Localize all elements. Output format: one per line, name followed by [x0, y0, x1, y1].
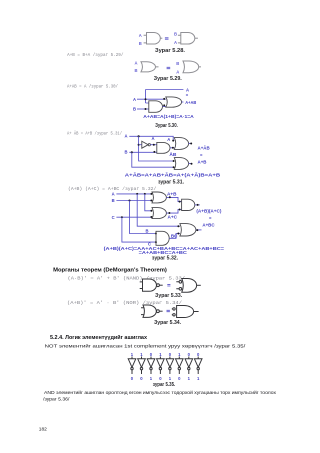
inverter U7 [176, 357, 184, 375]
svg-text:B: B [133, 107, 136, 112]
node A branch 2 [144, 193, 146, 195]
identity text line A+AB [67, 85, 118, 90]
wire input A to OR [137, 98, 166, 100]
output bits row [131, 376, 200, 381]
body text AND line 1 [44, 389, 277, 396]
AND gate G5 [149, 101, 163, 113]
identity text line A+B [67, 53, 124, 58]
AND gate G11 [156, 231, 169, 245]
wire AND-B output [169, 234, 180, 239]
caption figure 5.28 [155, 48, 186, 54]
label A+B [167, 191, 177, 196]
svg-text:Зураг 5.30.: Зураг 5.30. [155, 123, 178, 129]
node AND-R output [197, 204, 199, 206]
caption figure 5.34 [154, 320, 182, 326]
svg-text:(A+B)' = A' · B' (NOR) /зур: (A+B)' = A' · B' (NOR) /зураг 5.34/ [67, 301, 183, 306]
input label A (gate G3) [135, 60, 138, 65]
wire AND output [163, 106, 167, 108]
svg-text:A: A [139, 33, 142, 38]
figure 5.35 : ones complement inverters [128, 352, 202, 388]
equals sign fig 5.29 [167, 67, 171, 68]
identity text line (A+B)(A+C) [68, 187, 157, 192]
caption figure 5.35 [153, 382, 176, 388]
bubble OR input 2 [179, 288, 182, 291]
inverter U3 [138, 357, 146, 375]
wire A long rail to OR3 [137, 194, 180, 226]
input label B (gate G4) [176, 61, 179, 66]
bubble AND input 1 [173, 308, 175, 310]
input label B (gate G1) [139, 41, 142, 46]
svg-text:1: 1 [188, 376, 191, 381]
wire A top rail [129, 136, 174, 140]
label A at OR-T input [167, 137, 170, 142]
label Abar [152, 136, 155, 141]
node AND-R lower input [179, 209, 181, 211]
node AND-R upper input [179, 201, 181, 203]
figure 5.30 : absorption A+AB=A [133, 88, 196, 130]
heading DeMorgan [53, 267, 167, 273]
output label A+B [198, 159, 207, 164]
svg-text:A: A [174, 40, 177, 45]
svg-text:Зураг 5.29.: Зураг 5.29. [154, 76, 183, 82]
svg-text:зураг 5.31.: зураг 5.31. [158, 180, 185, 186]
figure 5.31 : A+notA B = A+B [125, 134, 221, 186]
identity text line NAND [68, 277, 186, 282]
svg-text:0: 0 [140, 376, 143, 381]
svg-text:зураг 5.32.: зураг 5.32. [152, 255, 179, 261]
OR gate G4 [183, 61, 199, 73]
svg-text:C: C [112, 215, 115, 220]
svg-text:1: 1 [140, 352, 143, 357]
wire to inverter [139, 144, 142, 146]
node OR1 upper input [150, 193, 152, 195]
wire OR1 output [166, 197, 181, 201]
svg-text:A+AB = A /зураг 5.30/: A+AB = A /зураг 5.30/ [67, 85, 118, 90]
page number [39, 426, 47, 432]
node A branch 1 [136, 193, 138, 195]
node OR-B output [191, 163, 193, 165]
node junction A [145, 98, 147, 100]
AND gate G15 [177, 306, 194, 318]
svg-text:1: 1 [197, 376, 200, 381]
node B branch [131, 151, 133, 153]
inverter U4 [147, 357, 155, 375]
caption figure 5.30 [155, 123, 178, 129]
input label C [112, 215, 115, 220]
caption figure 5.33 [155, 293, 183, 299]
label B at AND-B [146, 228, 149, 233]
wire B rail to AND-B [130, 201, 157, 234]
node OR2 upper input [150, 210, 152, 212]
inverter U6 [166, 357, 174, 375]
svg-text:1: 1 [150, 376, 153, 381]
wire output G4 [199, 66, 201, 68]
wire A input [116, 193, 152, 195]
OR gate G3 [141, 62, 156, 72]
inverter U2 [128, 357, 136, 375]
inverter U8 [185, 357, 193, 375]
wire NOR output [159, 310, 162, 312]
svg-text:A+C: A+C [168, 215, 178, 220]
input label A (gate G1) [139, 33, 142, 38]
node OR3 upper input [177, 225, 179, 227]
figure 5.33 : NAND = OR with inverted inputs [140, 279, 201, 300]
wire output G1 [160, 37, 162, 39]
node inverter branch [138, 144, 140, 146]
equals sign fig 5.28 [165, 38, 169, 39]
wire AND output [194, 311, 199, 313]
wire AND-R output [195, 204, 200, 206]
identity text line NOR [67, 301, 183, 306]
svg-text:B: B [146, 228, 149, 233]
node AND-B upper input [155, 233, 157, 235]
svg-text:A: A [176, 70, 179, 75]
inverter U1 [142, 141, 151, 148]
inverter U5 [157, 357, 165, 375]
svg-text:=: = [200, 153, 203, 158]
wire C rail to AND-B [122, 217, 156, 242]
wire input stubs G1 [144, 35, 147, 43]
OR gate G13 [182, 279, 197, 293]
label C at AND-B [148, 242, 151, 247]
svg-text:0: 0 [188, 352, 191, 357]
NAND gate G12 [143, 279, 157, 291]
svg-text:1: 1 [131, 352, 134, 357]
svg-text:Зураг 5.34.: Зураг 5.34. [154, 320, 182, 326]
node OR-T output [190, 143, 192, 145]
node OR1 output [169, 196, 171, 198]
svg-text:B: B [125, 150, 128, 155]
node AND lower input [153, 151, 155, 153]
wire B vertical to bottom rail [132, 152, 174, 167]
svg-text:Ā: Ā [152, 136, 155, 141]
node OR-B upper input [173, 160, 175, 162]
svg-text:1: 1 [178, 352, 181, 357]
OR gate OR1 [152, 192, 166, 203]
wire output G3 [156, 66, 159, 68]
bubble NOR output [157, 310, 160, 313]
AND gate G10 [182, 199, 195, 210]
wire A to OR2 [145, 194, 152, 211]
svg-text:A: A [133, 97, 136, 102]
svg-text:=: = [209, 215, 212, 220]
svg-text:0: 0 [131, 376, 134, 381]
svg-text:Морганы теорем (DeMorgan's The: Морганы теорем (DeMorgan's Theorem) [53, 267, 167, 273]
wire OR-B output [189, 163, 192, 165]
input label A (gate G4) [176, 70, 179, 75]
OR gate OR3 [180, 224, 196, 236]
svg-text:B: B [112, 198, 115, 203]
input bits row [131, 352, 200, 357]
caption figure 5.29 [154, 76, 183, 82]
svg-text:A: A [167, 137, 170, 142]
svg-text:A+AB=A(1+B)=A·1=A: A+AB=A(1+B)=A·1=A [143, 114, 194, 119]
svg-text:B: B [176, 61, 179, 66]
node OR-T lower input [172, 147, 174, 149]
svg-text:B: B [135, 68, 138, 73]
node B branch [129, 200, 131, 202]
output label (A+B)(A+C) [196, 208, 222, 213]
wire vertical branch [146, 90, 149, 104]
equation fig 5.32 line 2 [139, 250, 187, 255]
wire C input [116, 216, 152, 218]
node OR2 output [168, 212, 170, 214]
svg-text:A+B: A+B [198, 159, 207, 164]
input label B [112, 198, 115, 203]
wire OR output [197, 284, 201, 286]
node OR-T upper input [172, 140, 174, 142]
wire output G2 [195, 37, 198, 39]
wire input stubs AND-bubbles [171, 309, 174, 315]
label BC [171, 234, 178, 239]
node OR3 output [196, 229, 198, 231]
svg-text:5.2.4. Логик элементүүдийг аши: 5.2.4. Логик элементүүдийг ашиглах [50, 334, 147, 341]
section heading 5.2.4 [50, 334, 147, 341]
OR gate OR2 [152, 208, 166, 219]
svg-text:0: 0 [150, 352, 153, 357]
svg-text:0: 0 [197, 352, 200, 357]
equals sign fig 5.31 [200, 153, 203, 158]
svg-text:B: B [174, 31, 177, 36]
node OR1 lower input [150, 200, 152, 202]
bubble NAND output [157, 284, 160, 287]
wire input stubs NOR [141, 308, 144, 315]
node OR upper input [163, 98, 165, 100]
wire input stubs G2 [178, 35, 181, 43]
node OR3 lower input [177, 233, 179, 235]
svg-text:=: = [186, 93, 189, 98]
svg-text:A: A [112, 191, 115, 196]
svg-text:A+ĀB=A+AB+ĀB=A+(A+Ā)B=A+B: A+ĀB=A+AB+ĀB=A+(A+Ā)B=A+B [125, 173, 220, 178]
bubble OR input 1 [179, 281, 182, 284]
svg-text:BC: BC [171, 234, 178, 239]
figure 5.34 : NOR = AND with inverted inputs [141, 305, 199, 326]
equation fig 5.32 line 1 [104, 246, 225, 251]
equals sign fig 5.32 [209, 215, 212, 220]
wire NAND output [159, 284, 162, 286]
equals sign stack [186, 93, 189, 98]
wire inverter to AND [150, 144, 156, 146]
wire input stubs OR-bubbles [176, 282, 179, 289]
input label A [112, 191, 115, 196]
wire AND output [170, 147, 174, 149]
svg-text:зураг 5.35.: зураг 5.35. [153, 382, 176, 388]
svg-text:A: A [135, 60, 138, 65]
equals sign fig 5.34 [167, 310, 170, 311]
wire OR-T output [189, 143, 192, 145]
input label B (gate G2) [174, 31, 177, 36]
identity text line A+AB=A+B [67, 131, 122, 136]
AND gate G7 [157, 142, 170, 153]
bubble AND input 2 [173, 314, 175, 316]
svg-text:A+B: A+B [167, 191, 177, 196]
OR gate G8 top [174, 138, 188, 150]
wire B input [116, 200, 152, 202]
input label A [133, 97, 136, 102]
label AbarB [169, 152, 176, 157]
svg-text:A+ ĀB = A+B /зураг 5.31/: A+ ĀB = A+B /зураг 5.31/ [67, 131, 122, 136]
figure 5.28 : AND commutativity [139, 31, 198, 54]
node OR-B lower input [173, 166, 175, 168]
node C branch [121, 216, 123, 218]
wire B input [129, 151, 157, 153]
svg-text:1: 1 [159, 352, 162, 357]
body text NOT line [45, 343, 247, 350]
input label A [125, 134, 128, 139]
input label B [125, 150, 128, 155]
svg-text:1: 1 [169, 376, 172, 381]
output label A+AbarB [198, 145, 210, 150]
caption figure 5.31 [158, 180, 185, 186]
svg-text:A+AB: A+AB [185, 100, 196, 105]
OR gate G9 bottom [174, 158, 188, 170]
node A branch [138, 135, 140, 137]
input label B [133, 107, 136, 112]
node on Abar wire [153, 144, 155, 146]
svg-text:0: 0 [169, 352, 172, 357]
AND gate G2 [181, 33, 195, 45]
OR gate G6 [166, 97, 182, 107]
equation fig 5.31 [125, 173, 220, 178]
svg-text:(A·B)' = A' + B' (NAND) /зу: (A·B)' = A' + B' (NAND) /зураг 5.33/ [68, 277, 186, 282]
caption figure 5.32 [152, 255, 179, 261]
wire input stubs NAND [140, 282, 143, 289]
svg-text:A+BC: A+BC [202, 222, 214, 227]
svg-text:B: B [139, 41, 142, 46]
node OR lower input [163, 104, 165, 106]
equals sign fig 5.33 [167, 285, 170, 286]
input label A (gate G2) [174, 40, 177, 45]
svg-text:A+ĀB: A+ĀB [198, 145, 210, 150]
wire top rail A [146, 89, 184, 91]
svg-text:ĀB: ĀB [169, 152, 176, 157]
wire input B [137, 108, 149, 110]
wire OR2 output [166, 210, 181, 214]
inverter U9 [194, 357, 202, 375]
output label A+AB [185, 100, 196, 105]
svg-text:0: 0 [159, 376, 162, 381]
node AND-B lower input [155, 241, 157, 243]
output label A [186, 88, 189, 93]
svg-text:Зураг 5.28.: Зураг 5.28. [155, 48, 186, 54]
svg-text:AND элементийг ашиглан оролтон: AND элементийг ашиглан оролтонд өгсөн им… [44, 389, 277, 396]
node OR2 lower input [150, 216, 152, 218]
svg-text:/зураг 5.36/: /зураг 5.36/ [43, 396, 70, 402]
node on B wire [145, 108, 147, 110]
AND gate G1 [147, 33, 161, 45]
output label A+BC [202, 222, 214, 227]
wire OR3 output [196, 229, 202, 231]
wire OR output [182, 101, 184, 103]
input label B (gate G3) [135, 68, 138, 73]
label A+C [168, 215, 178, 220]
svg-text:A: A [125, 134, 128, 139]
svg-text:(A+B)(A+C): (A+B)(A+C) [196, 208, 222, 213]
svg-text:Зураг 5.33.: Зураг 5.33. [155, 293, 183, 299]
svg-text:NOT элементийг ашигласан 1st c: NOT элементийг ашигласан 1st complement … [45, 343, 247, 350]
svg-text:A+B = B+A /зураг 5.29/: A+B = B+A /зураг 5.29/ [67, 53, 124, 58]
equation A+AB [143, 114, 194, 119]
NOR gate G14 [143, 305, 156, 317]
wire A vertical to bottom rail [139, 136, 174, 161]
svg-text:0: 0 [178, 376, 181, 381]
svg-text:182: 182 [39, 426, 47, 432]
figure 5.32 : distributive law [104, 191, 225, 261]
body text AND line 2 [43, 396, 70, 402]
figure 5.29 : OR commutativity [135, 60, 202, 82]
